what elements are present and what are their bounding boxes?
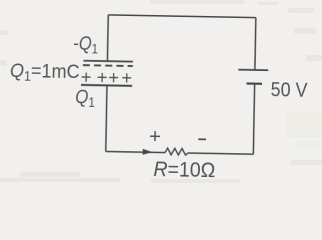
- svg-text:Q1=1mC: Q1=1mC: [10, 59, 80, 85]
- wire left lower: [106, 85, 107, 151]
- battery V1: [238, 70, 268, 84]
- svg-text:+: +: [149, 125, 161, 148]
- label - (resistor): [198, 138, 206, 140]
- svg-text:+: +: [121, 67, 132, 88]
- wire bottom left of resistor: [106, 152, 165, 153]
- wire right lower: [253, 84, 254, 154]
- wire left upper: [106, 15, 109, 61]
- resistor R1: [165, 148, 188, 155]
- wire top: [108, 15, 256, 18]
- svg-text:50 V: 50 V: [271, 79, 308, 102]
- wire right upper: [254, 18, 257, 70]
- negative charges: [83, 64, 133, 67]
- wire bottom right of resistor: [188, 153, 253, 154]
- svg-text:R=10Ω: R=10Ω: [153, 157, 215, 182]
- positive charges: [81, 66, 133, 88]
- capacitor C1: [81, 61, 133, 86]
- svg-text:+: +: [108, 67, 119, 88]
- svg-text:+: +: [97, 67, 108, 88]
- current arrow: [143, 149, 153, 155]
